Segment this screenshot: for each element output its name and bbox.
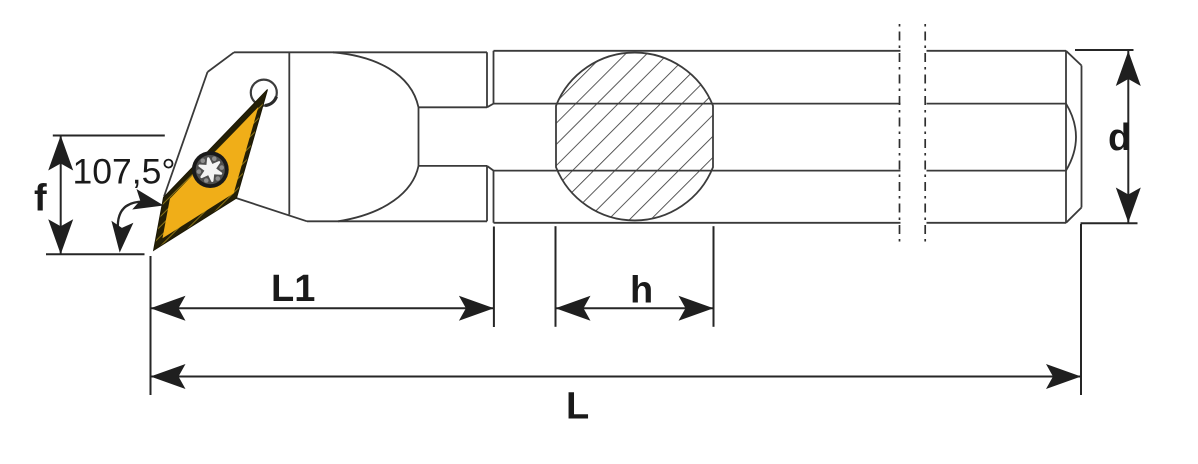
torx screw outer black circle (192, 151, 229, 188)
wire head top edge (234, 51, 487, 53)
wire right end edge (1081, 66, 1083, 208)
break line right (dash-dot) (924, 24, 926, 246)
torx screw inner gray disc (196, 155, 225, 184)
f top extension line (53, 135, 165, 137)
wire shank right end vertical (1065, 51, 1067, 223)
wire clamp vertical line (288, 52, 290, 214)
wire head bottom slope (236, 198, 307, 221)
L dimension line (151, 376, 1082, 378)
h dimension line (556, 307, 714, 309)
f dimension arrow up (48, 136, 73, 171)
DIMENSIONS (46, 50, 1138, 395)
svg-text:f: f (34, 178, 47, 220)
d dimension line (1127, 51, 1129, 223)
L dimension arrow left (151, 364, 186, 389)
wire right end chamfer top (1066, 51, 1082, 66)
cross-section circle with flats, hatched (556, 53, 713, 221)
d dimension arrow up (1116, 51, 1141, 86)
h left extension line (555, 226, 557, 327)
insert yellow face (163, 107, 259, 238)
torx star (200, 158, 221, 180)
svg-text:L: L (566, 386, 589, 428)
wire head left chamfer (208, 52, 235, 72)
clamp screw hole countersink arc (265, 97, 276, 106)
wire head left slope edge (164, 72, 208, 197)
wire shank bottom edge (494, 222, 1067, 224)
svg-text:h: h (630, 270, 653, 312)
clamp screw hole circle (251, 80, 277, 106)
arrowheads (48, 51, 1141, 389)
h dimension arrow right (679, 296, 714, 321)
L1 left extension line (shared with L) (150, 256, 152, 395)
svg-text:d: d (1108, 117, 1131, 159)
L1 dimension arrow left (151, 296, 186, 321)
wire shank top edge (494, 50, 1067, 52)
L1 right extension line (493, 227, 495, 328)
svg-text:L1: L1 (271, 268, 315, 310)
f bottom extension line (46, 253, 145, 255)
wire head/shank junction verticals bottom (487, 166, 494, 223)
wire head lower flat line (419, 165, 488, 167)
d top extension line (1075, 49, 1134, 51)
L right extension line (1080, 224, 1082, 395)
break line left (dash-dot) (899, 24, 901, 246)
d dimension arrow down (1116, 188, 1141, 223)
d bottom extension line (1081, 222, 1138, 224)
wire right end chamfer bottom (1066, 208, 1082, 223)
angle arrow to insert edge (132, 189, 164, 210)
f dimension line (60, 136, 62, 255)
h right extension line (713, 226, 715, 327)
insert border (hatched black band) (154, 90, 268, 251)
h dimension arrow left (556, 296, 591, 321)
angle arc (118, 202, 143, 227)
L dimension arrow right (1046, 364, 1081, 389)
wire head D-curve (333, 52, 419, 221)
wire head bottom edge (307, 220, 487, 222)
L1 dimension line (151, 307, 494, 309)
wire head upper flat line (419, 106, 488, 108)
wire right end arc (1066, 104, 1076, 171)
angle arrow down (111, 221, 133, 253)
f dimension arrow down (48, 219, 73, 254)
wire shank lower flat line (494, 170, 1067, 172)
wire head/shank junction verticals top (487, 51, 494, 108)
torx screw speckles (197, 156, 224, 182)
svg-text:107,5°: 107,5° (73, 151, 176, 191)
wire shank upper flat line (494, 103, 1067, 105)
L1 dimension arrow right (459, 296, 494, 321)
